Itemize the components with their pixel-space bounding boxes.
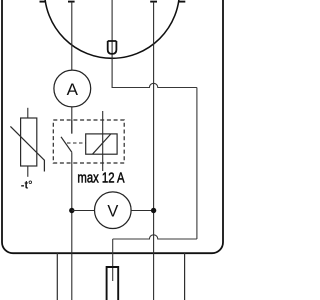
wire: upper horizontal run with crossover hop [112,83,197,87]
voltmeter U3 circle [95,192,132,229]
relay mechanical link (dashed) [67,142,86,144]
terminal tick, circle left [40,1,46,3]
wire: center pin feed [112,239,114,281]
junction dot right [151,208,156,213]
wire: right column top-to-bottom [153,2,155,300]
fuse F1 [108,41,117,54]
wire: fuse column (top to corner) [111,0,113,88]
bottom pin stub left [56,253,58,300]
enclosure outline [2,0,223,253]
relay switch arm [61,137,72,152]
terminal tick, wire A [68,1,75,3]
wire: voltmeter left lead [72,210,95,212]
relay box (dashed) [53,120,124,163]
relay coil wire (vertical through coil) [102,111,104,171]
thermistor RT1: strike line [10,126,44,171]
relay coil K1 body [86,134,117,154]
relay switch: bottom wire to junction and bottom edge [71,152,73,300]
center pin sleeve [107,267,119,300]
wire: right vertical run [196,88,198,240]
thermistor RT1: bottom lead [27,166,29,177]
svg-text:-t°: -t° [21,180,33,192]
wire: lower horizontal run with crossover hop [113,235,197,239]
thermistor RT1: body [21,118,37,166]
wire: ammeter to relay switch [71,107,73,134]
ammeter U2 circle [54,70,91,107]
wire: top to ammeter [71,2,73,71]
svg-text:V: V [107,202,118,220]
relay coil wire visible inside [102,134,104,154]
svg-text:max 12 A: max 12 A [77,171,124,187]
plug body circle [45,0,180,58]
relay coil diagonal [93,134,111,154]
relay switch: fixed contact end [71,120,73,134]
junction dot left [69,208,74,213]
terminal tick, wire right [150,1,157,3]
wire: voltmeter right lead [131,210,154,212]
bottom pin stub right [184,253,186,300]
svg-text:A: A [67,80,79,99]
terminal tick, circle right [179,1,185,3]
thermistor RT1: top lead [27,108,29,118]
